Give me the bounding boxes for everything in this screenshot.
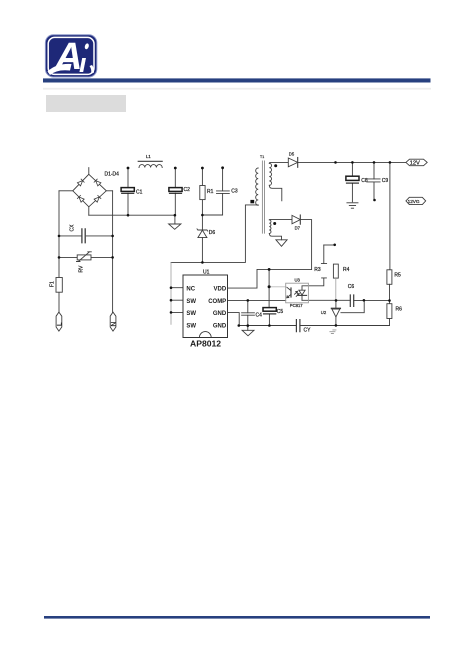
svg-text:12VG: 12VG bbox=[408, 199, 420, 204]
svg-text:U1: U1 bbox=[203, 270, 210, 276]
svg-text:U3: U3 bbox=[295, 278, 301, 283]
svg-text:R5: R5 bbox=[394, 273, 401, 279]
svg-text:D7: D7 bbox=[295, 226, 301, 231]
svg-text:NC: NC bbox=[186, 286, 195, 292]
svg-text:R6: R6 bbox=[396, 307, 403, 313]
svg-text:CX: CX bbox=[70, 224, 76, 232]
svg-text:C3: C3 bbox=[231, 188, 238, 194]
svg-text:T1: T1 bbox=[260, 155, 264, 159]
svg-text:D5: D5 bbox=[289, 152, 295, 157]
svg-text:CY: CY bbox=[304, 327, 312, 333]
svg-text:C1: C1 bbox=[136, 189, 143, 195]
svg-text:AP8012: AP8012 bbox=[190, 338, 221, 348]
svg-text:R1: R1 bbox=[207, 189, 214, 195]
svg-text:C6: C6 bbox=[348, 284, 355, 290]
svg-text:C5: C5 bbox=[277, 309, 284, 315]
svg-text:L: L bbox=[56, 322, 63, 326]
svg-text:SW: SW bbox=[186, 299, 196, 305]
svg-text:N: N bbox=[111, 322, 118, 327]
svg-text:R3: R3 bbox=[314, 267, 321, 273]
svg-text:GND: GND bbox=[213, 324, 227, 330]
svg-text:C9: C9 bbox=[382, 178, 389, 184]
svg-text:ı: ı bbox=[79, 48, 87, 78]
svg-text:D6: D6 bbox=[209, 230, 216, 236]
svg-text:GND: GND bbox=[213, 311, 227, 317]
svg-text:SW: SW bbox=[186, 324, 196, 330]
svg-text:PC817: PC817 bbox=[290, 303, 303, 308]
svg-text:SW: SW bbox=[186, 311, 196, 317]
svg-text:F1: F1 bbox=[50, 281, 56, 287]
svg-text:D1-D4: D1-D4 bbox=[105, 172, 120, 178]
svg-text:U2: U2 bbox=[321, 310, 327, 315]
svg-text:COMP: COMP bbox=[208, 299, 226, 305]
svg-text:RV: RV bbox=[79, 265, 85, 273]
svg-text:12V: 12V bbox=[410, 161, 420, 167]
svg-text:L1: L1 bbox=[146, 154, 151, 159]
svg-text:C8: C8 bbox=[361, 178, 368, 184]
svg-text:R4: R4 bbox=[343, 267, 350, 273]
svg-text:VDD: VDD bbox=[214, 286, 227, 292]
svg-text:C2: C2 bbox=[184, 187, 191, 193]
svg-text:C4: C4 bbox=[256, 312, 263, 318]
